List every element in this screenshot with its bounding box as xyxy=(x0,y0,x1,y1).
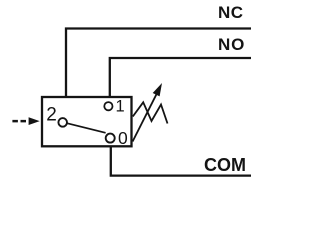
svg-text:COM: COM xyxy=(204,155,246,175)
actuator arrow head xyxy=(153,83,162,96)
actuator arrow shaft xyxy=(133,92,158,141)
wire NC (from box top to NC terminal) xyxy=(66,29,251,98)
terminal 2 contact circle xyxy=(58,118,67,127)
svg-text:2: 2 xyxy=(46,104,57,125)
wire NO (from box top to NO terminal) xyxy=(110,58,251,97)
switch body S1 (enclosure box) xyxy=(42,97,132,146)
terminal 1 contact circle xyxy=(104,102,112,110)
terminal 0 contact circle xyxy=(106,134,115,143)
wire COM (from box bottom to COM terminal) xyxy=(111,146,251,176)
actuator dashed arrow (push direction, left side) xyxy=(12,117,39,125)
actuator zigzag (snap-action spring symbol) xyxy=(133,102,168,123)
svg-text:1: 1 xyxy=(116,98,125,116)
svg-text:NO: NO xyxy=(218,35,245,54)
lever (movable contact from terminal 2 to terminal 0) xyxy=(67,123,105,133)
svg-text:0: 0 xyxy=(118,128,128,148)
svg-text:NC: NC xyxy=(218,3,244,22)
